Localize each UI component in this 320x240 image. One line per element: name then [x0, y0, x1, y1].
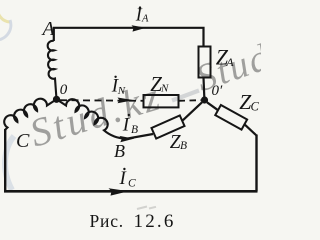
wire: B to Z_B	[126, 134, 153, 139]
wire: Z_B to node O'	[183, 102, 202, 120]
wire: Z_A to node O'	[202, 78, 205, 98]
svg-text:A: A	[141, 13, 149, 24]
wire: phase A top conductor	[54, 28, 204, 47]
svg-text:C: C	[251, 99, 260, 113]
current arrow I_C	[109, 188, 129, 195]
label Z_A	[216, 45, 235, 70]
label I_C	[119, 168, 137, 190]
svg-text:A: A	[225, 55, 234, 69]
wire: O' to Z_C	[207, 102, 218, 110]
node O'	[201, 96, 208, 103]
label I_A	[135, 4, 149, 24]
winding B (source phase B coil)	[58, 99, 126, 139]
winding C (source phase C coil)	[4, 99, 55, 130]
svg-text:B: B	[114, 141, 125, 161]
current arrow I_B	[120, 136, 135, 142]
svg-text:C: C	[16, 130, 30, 152]
current arrow I_N	[118, 98, 135, 104]
svg-text:N: N	[117, 85, 126, 97]
wire: Z_C to right corner	[245, 125, 257, 136]
caption: Рис. 12.6	[90, 211, 176, 232]
svg-text:C: C	[128, 178, 136, 190]
label I_B	[122, 114, 138, 136]
label Z_B	[170, 132, 187, 153]
impedance Z_C	[215, 105, 247, 130]
label Z_C	[239, 90, 259, 114]
svg-text:N: N	[160, 83, 169, 95]
node O	[53, 96, 60, 103]
wire: left side conductor	[4, 129, 6, 191]
svg-text:0: 0	[60, 82, 68, 98]
impedance Z_B	[151, 115, 184, 138]
label Z_N	[150, 72, 169, 96]
svg-text:0′: 0′	[212, 83, 224, 99]
impedance Z_A	[199, 47, 211, 78]
label I_N	[111, 75, 126, 97]
svg-text:Рис.: Рис.	[90, 211, 124, 231]
impedance Z_N	[144, 95, 179, 107]
neutral wire O to Z_N (dashed)	[60, 99, 143, 102]
wire: right side conductor	[255, 135, 257, 192]
watermark layer (decorative)	[0, 6, 276, 209]
neutral wire Z_N to O' (dashed)	[179, 99, 202, 102]
current arrow I_A	[132, 25, 147, 31]
winding A (source phase A coil)	[48, 41, 57, 96]
svg-text:12.6: 12.6	[134, 211, 176, 232]
wire: bottom conductor	[4, 190, 258, 193]
svg-text:B: B	[180, 140, 187, 152]
svg-text:B: B	[131, 124, 138, 136]
